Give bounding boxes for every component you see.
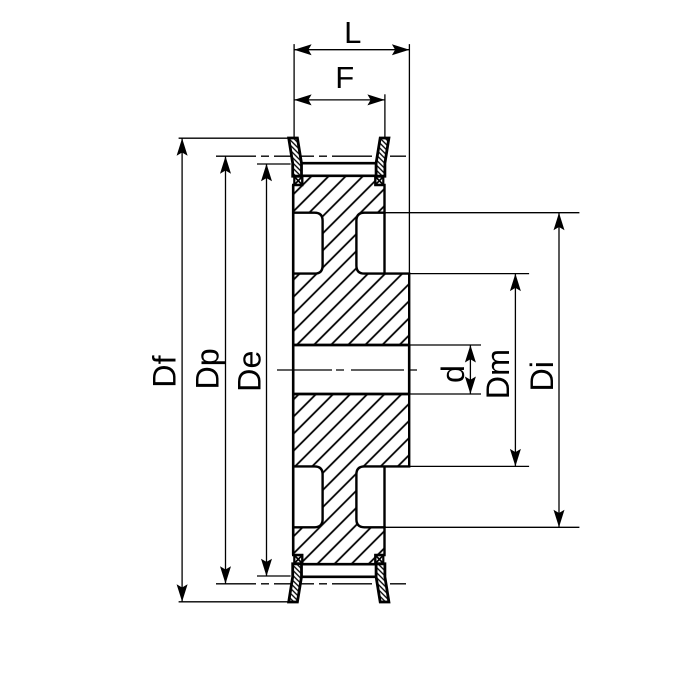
svg-text:Df: Df bbox=[146, 354, 182, 387]
svg-text:Dm: Dm bbox=[480, 349, 516, 399]
svg-text:Dp: Dp bbox=[190, 348, 226, 389]
svg-text:De: De bbox=[232, 351, 268, 392]
svg-text:L: L bbox=[344, 15, 361, 50]
svg-text:Di: Di bbox=[524, 361, 560, 392]
svg-text:d: d bbox=[435, 365, 471, 383]
svg-text:F: F bbox=[335, 60, 354, 95]
